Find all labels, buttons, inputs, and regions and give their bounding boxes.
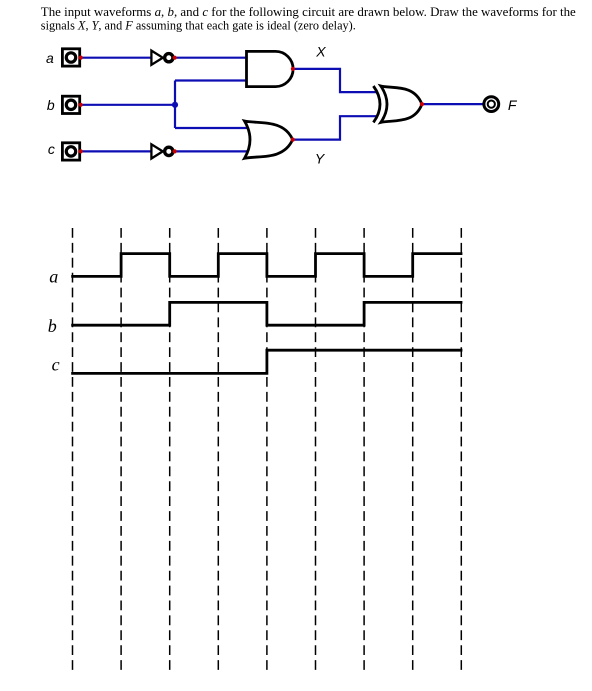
inverter U2 on c line	[151, 144, 173, 158]
svg-text:X: X	[315, 44, 326, 60]
pin dot: AND output	[291, 67, 295, 71]
input terminal c	[62, 143, 79, 160]
label c (circuit input)	[48, 141, 55, 157]
wire b: terminal b to node J	[81, 104, 175, 106]
wire a2: inverter output to AND gate input	[175, 57, 248, 59]
wire b vertical branch	[174, 81, 176, 129]
waveform c trace	[71, 350, 462, 373]
label F (circuit output)	[508, 97, 518, 113]
svg-text:signals X, Y, and F assuming t: signals X, Y, and F assuming that each g…	[41, 17, 356, 32]
timing grid dashed line 5	[266, 228, 268, 670]
XOR gate (output F)	[373, 86, 422, 122]
timing grid dashed line 8	[412, 228, 414, 670]
timing grid dashed line 1	[72, 228, 74, 670]
label Y (OR output net)	[315, 151, 326, 167]
wire b to OR gate upper input	[175, 127, 249, 129]
pin dot: OR output	[291, 138, 295, 142]
waveform label c	[52, 354, 60, 374]
waveform label a	[49, 266, 58, 286]
timing grid dashed line 7	[363, 228, 365, 670]
wire Y: OR output to XOR lower input	[293, 116, 378, 139]
svg-text:c: c	[48, 141, 55, 157]
wire a: terminal a to inverter	[81, 57, 152, 59]
AND gate (output X)	[247, 51, 294, 86]
wire F: XOR output to terminal F	[422, 103, 484, 105]
svg-text:F: F	[508, 97, 518, 113]
label a (circuit input)	[46, 50, 54, 66]
pin dot: terminal c output	[79, 149, 83, 153]
pin dot: inverter U2 output	[173, 149, 177, 153]
wire c: terminal c to inverter	[81, 150, 152, 152]
label b (circuit input)	[47, 97, 55, 113]
pin dot: terminal a output	[79, 56, 83, 60]
timing grid dashed line 3	[169, 228, 171, 670]
pin dot: inverter U1 output	[173, 56, 177, 60]
wire X: AND output to XOR upper input	[293, 69, 378, 92]
waveform a trace	[71, 254, 462, 277]
timing grid dashed line 4	[217, 228, 219, 670]
input terminal b	[62, 96, 79, 113]
svg-text:b: b	[48, 316, 57, 336]
output terminal F	[484, 97, 499, 112]
pin dot: terminal b output	[79, 103, 83, 107]
node J junction dot	[172, 102, 178, 108]
waveform b trace	[71, 302, 462, 325]
wire b to AND gate lower input	[175, 79, 247, 81]
inverter U1 on a line	[151, 51, 173, 65]
waveform label b	[48, 316, 57, 336]
label X (AND output net)	[315, 44, 326, 60]
timing grid dashed line 2	[120, 228, 122, 670]
timing grid dashed line 6	[315, 228, 317, 670]
svg-text:a: a	[46, 50, 54, 66]
OR gate (output Y)	[245, 121, 293, 158]
svg-text:a: a	[49, 266, 58, 286]
wire c2: inverter output to OR gate lower input	[175, 150, 250, 152]
timing grid dashed line 9	[460, 228, 462, 670]
svg-text:c: c	[52, 354, 60, 374]
pin dot: XOR output	[420, 102, 424, 106]
input terminal a	[62, 49, 79, 66]
svg-text:b: b	[47, 97, 55, 113]
